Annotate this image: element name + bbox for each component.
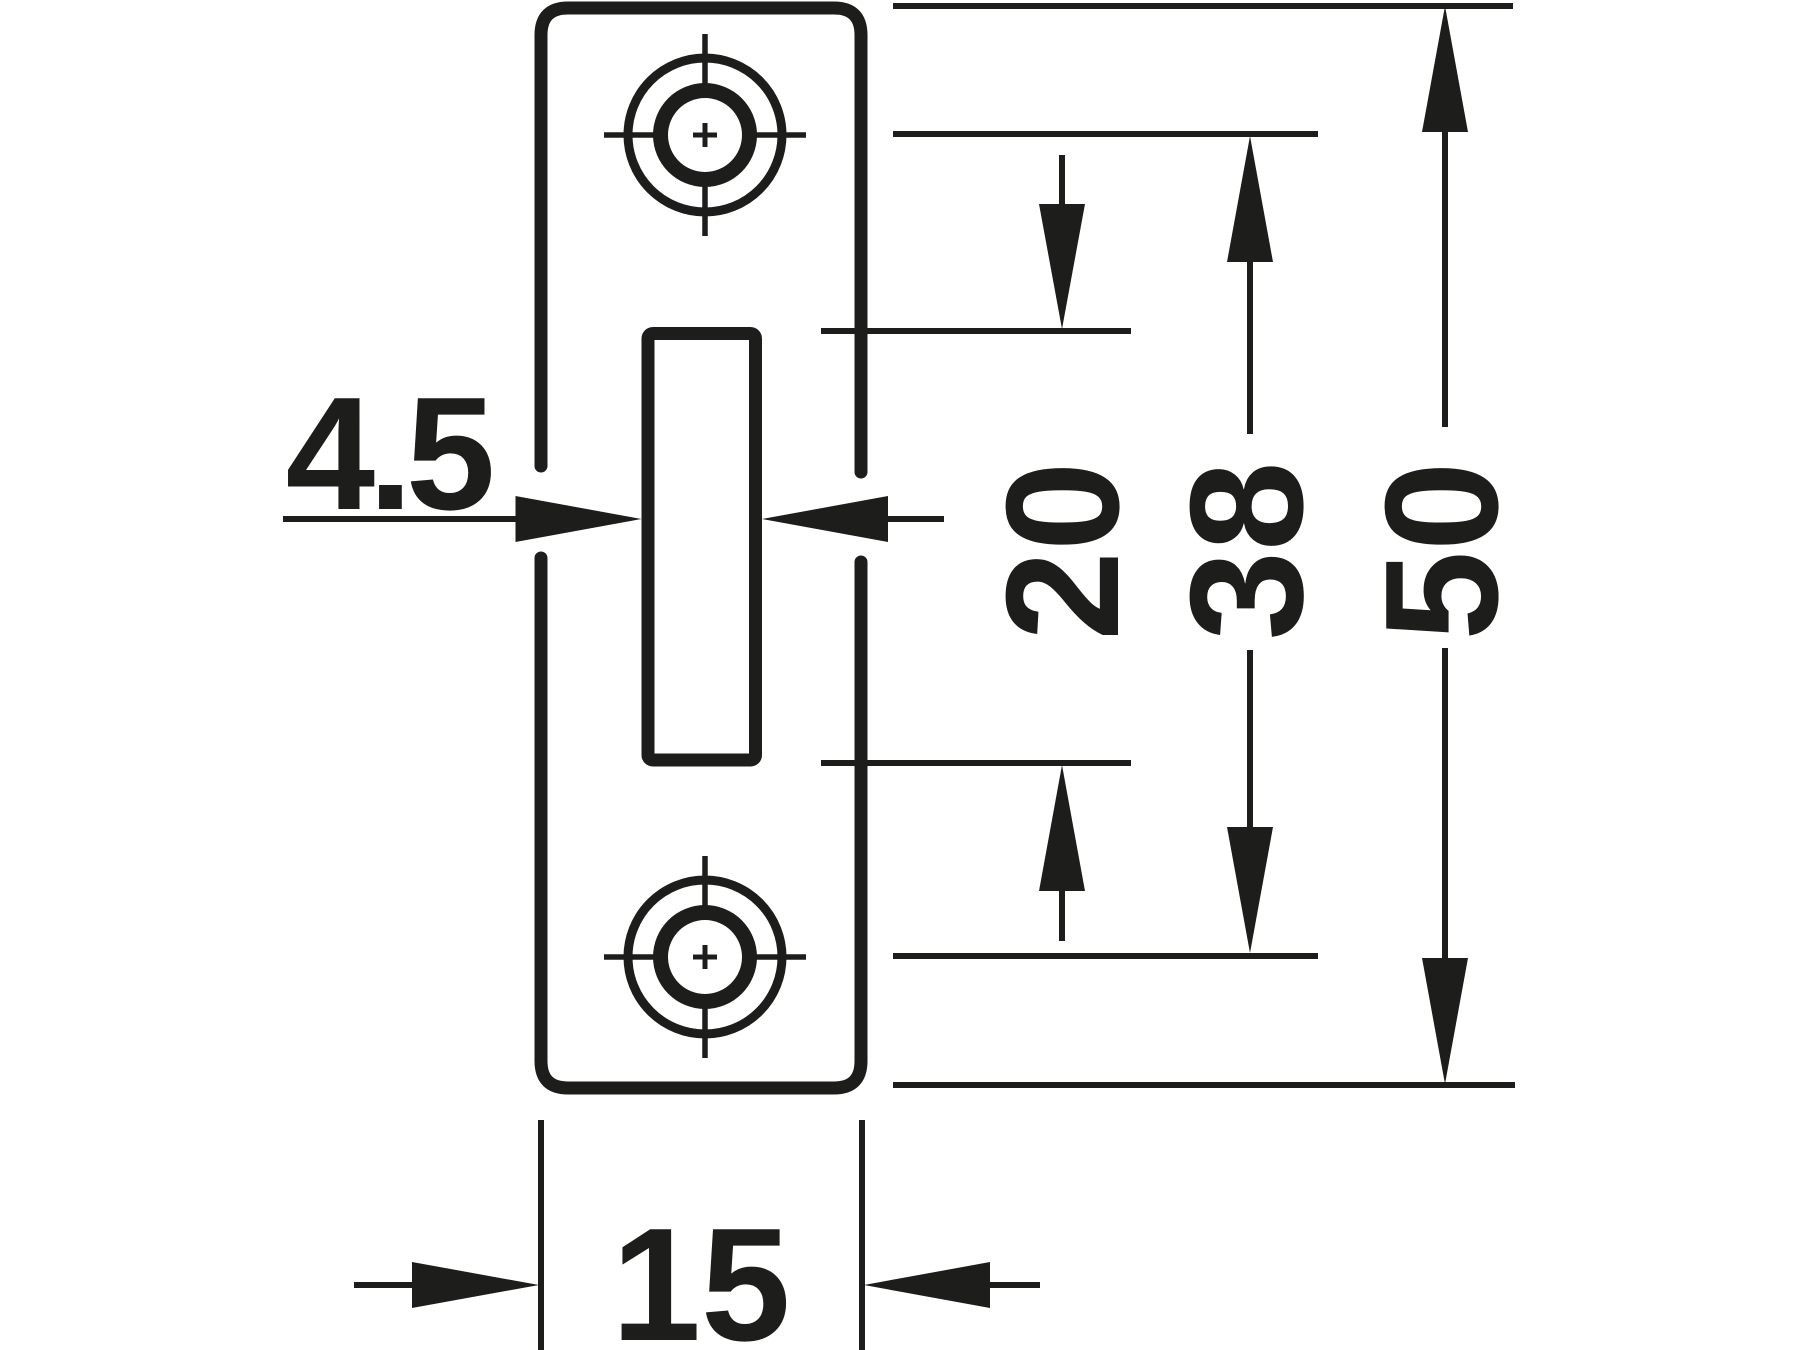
extension line top (50) bbox=[893, 3, 1513, 9]
hole bottom: ring bbox=[653, 905, 757, 1009]
dim 4.5 right bbox=[888, 516, 944, 522]
hole top: ring bbox=[653, 83, 757, 187]
slot bbox=[648, 334, 756, 761]
hole top: crosshair bbox=[604, 34, 806, 236]
svg-text:38: 38 bbox=[1157, 461, 1337, 640]
svg-text:15: 15 bbox=[611, 1195, 790, 1350]
extension line top hole (38) bbox=[893, 131, 1318, 137]
dim 15 right arrow bbox=[990, 1282, 1040, 1288]
dim 38 line upper bbox=[1247, 262, 1253, 434]
extension line slot top (20) bbox=[821, 328, 1131, 334]
plate outline upper part bbox=[541, 8, 861, 472]
svg-text:20: 20 bbox=[973, 461, 1153, 640]
dim 15 extension lines bbox=[541, 1120, 862, 1350]
dim 50 line upper bbox=[1442, 132, 1448, 427]
extension line bottom hole (38) bbox=[893, 953, 1318, 959]
hole bottom: outer circle bbox=[628, 880, 782, 1034]
dim 50 line lower bbox=[1442, 648, 1448, 958]
hole top: outer circle bbox=[628, 58, 782, 212]
extension line plate bottom (50) bbox=[893, 1082, 1515, 1088]
dim 38 line lower bbox=[1247, 650, 1253, 827]
dim 20 upper arrow bbox=[1059, 155, 1065, 204]
hole top: center plus bbox=[693, 123, 717, 147]
hole bottom: crosshair bbox=[604, 856, 806, 1058]
dim 4.5 left bbox=[283, 516, 516, 522]
dim 20 lower arrow bbox=[1059, 891, 1065, 941]
dim 15 left arrow bbox=[354, 1282, 412, 1288]
svg-text:4.5: 4.5 bbox=[286, 364, 492, 544]
extension line slot bottom (20) bbox=[821, 760, 1131, 766]
hole bottom: center plus bbox=[693, 945, 717, 969]
svg-text:50: 50 bbox=[1352, 461, 1532, 640]
plate outline lower part bbox=[541, 558, 861, 1088]
